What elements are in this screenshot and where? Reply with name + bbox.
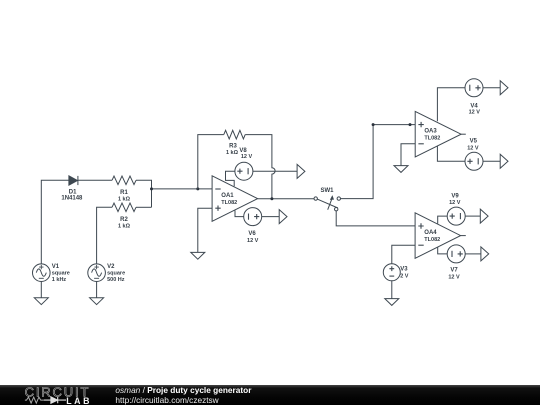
junction OA1 output	[270, 197, 273, 200]
svg-text:12 V: 12 V	[241, 154, 253, 160]
diode D1	[69, 176, 78, 185]
svg-text:OA4: OA4	[424, 230, 437, 236]
wire V2 to R2	[97, 207, 112, 264]
svg-text:1 kΩ: 1 kΩ	[226, 150, 239, 156]
flag V5	[500, 154, 508, 168]
wire SW1 throw2 to OA4 input	[336, 211, 415, 226]
svg-text:2 V: 2 V	[400, 273, 409, 279]
svg-text:SW1: SW1	[320, 188, 334, 194]
svg-text:V5: V5	[470, 139, 478, 145]
voltage source V2	[88, 264, 106, 282]
ground below OA3	[394, 166, 408, 173]
wire D1 cathode to R1	[78, 179, 112, 181]
svg-text:1 kΩ: 1 kΩ	[118, 224, 131, 230]
ground below V2	[90, 298, 104, 305]
flag V9	[480, 209, 488, 223]
svg-text:TL082: TL082	[221, 200, 237, 206]
voltage source V6	[244, 208, 262, 226]
svg-text:V4: V4	[470, 103, 478, 109]
wire V3 to ground	[391, 281, 393, 299]
ground below OA1	[191, 252, 205, 259]
node A junction	[150, 187, 153, 190]
junction at corner	[372, 123, 375, 126]
url line	[115, 395, 218, 405]
svg-text:D1: D1	[69, 189, 77, 195]
footer bar	[0, 385, 540, 405]
svg-text:square: square	[52, 271, 70, 277]
wire OA3 inverting to ground	[401, 144, 415, 166]
svg-text:square: square	[107, 271, 125, 277]
svg-text:V2: V2	[107, 264, 115, 270]
wire V8 to flag	[253, 170, 297, 172]
svg-text:12 V: 12 V	[448, 274, 460, 280]
svg-text:TL082: TL082	[424, 237, 440, 243]
wire SW1 throw1 to OA3 input	[341, 125, 416, 199]
flag V6	[279, 210, 287, 224]
wire V1 to ground	[40, 281, 42, 297]
wire V1 to D1 anode	[41, 180, 69, 264]
svg-text:OA3: OA3	[424, 129, 437, 135]
wire OA3 V- pin	[437, 146, 465, 161]
wire OA1 V- pin	[235, 210, 244, 216]
CircuitLab logo	[0, 380, 110, 405]
svg-text:12 V: 12 V	[449, 200, 461, 206]
voltage source V1	[33, 264, 51, 282]
svg-text:V3: V3	[400, 266, 408, 272]
svg-text:V9: V9	[451, 193, 459, 199]
wire OA1 non-inverting to ground	[198, 208, 212, 252]
wire V2 to ground	[96, 281, 98, 297]
resistor R1	[112, 176, 136, 185]
flag V7	[481, 247, 489, 261]
svg-text:TL082: TL082	[424, 136, 440, 142]
voltage source V4	[465, 79, 483, 97]
voltage source V8	[235, 162, 253, 180]
title line	[115, 385, 251, 395]
svg-text:R3: R3	[229, 143, 237, 149]
voltage source V3	[383, 264, 400, 281]
svg-text:OA1: OA1	[221, 193, 234, 199]
wire V9 to flag	[465, 215, 480, 217]
resistor R3	[224, 130, 245, 139]
wire V7 to flag	[465, 253, 481, 255]
svg-text:12 V: 12 V	[247, 238, 259, 244]
wire OA3 V+ pin	[437, 88, 465, 122]
wire OA3 output stub	[461, 133, 466, 135]
wire feedback left vertical	[198, 135, 224, 189]
svg-text:V1: V1	[52, 264, 60, 270]
wire OA4 V+ pin	[438, 216, 448, 224]
switch SW1	[314, 196, 340, 211]
svg-text:R1: R1	[120, 190, 128, 196]
voltage source V7	[447, 245, 465, 263]
svg-text:12 V: 12 V	[467, 145, 479, 151]
op-amp OA3	[415, 111, 461, 157]
wire OA4 V- pin	[438, 247, 448, 254]
svg-text:500 Hz: 500 Hz	[107, 277, 125, 283]
svg-text:LAB: LAB	[66, 396, 92, 405]
svg-text:1 kHz: 1 kHz	[52, 277, 67, 283]
svg-text:V7: V7	[450, 268, 458, 274]
wire OA4 inverting to V3	[392, 245, 415, 264]
junction on OA3 input wire	[409, 123, 412, 126]
svg-text:1N4148: 1N4148	[61, 196, 83, 202]
wire OA1 output to SW1	[258, 198, 314, 200]
op-amp OA1	[212, 176, 258, 222]
ground below V3	[385, 299, 399, 306]
wire R3 to output vertical with hop	[245, 135, 275, 199]
junction feedback tap	[196, 187, 199, 190]
wire R1 to node A	[136, 180, 152, 207]
svg-text:1 kΩ: 1 kΩ	[118, 197, 131, 203]
wire OA1 V+ pin	[226, 171, 236, 186]
ground below V1	[34, 298, 48, 305]
svg-text:12 V: 12 V	[469, 110, 481, 116]
svg-text:R2: R2	[120, 217, 128, 223]
wire V5 to flag	[483, 160, 500, 162]
flag V8	[297, 164, 305, 178]
resistor R2	[112, 203, 136, 212]
voltage source V5	[465, 152, 483, 170]
wire node A to OA1 inverting input	[152, 188, 213, 190]
wire V6 to flag	[262, 216, 280, 218]
op-amp OA4	[415, 213, 461, 259]
voltage source V9	[447, 207, 465, 225]
wire R2 to node A	[136, 206, 152, 208]
flag V4	[500, 81, 508, 95]
wire V4 to flag	[483, 87, 500, 89]
svg-text:V6: V6	[248, 231, 256, 237]
wire OA4 output stub	[461, 235, 466, 237]
